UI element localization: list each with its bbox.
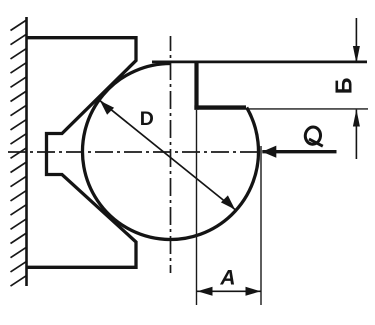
diameter D dimension line [100,101,235,210]
force Q arrow shaft [262,150,336,153]
vertical centerline [170,36,172,273]
dimension line A [197,290,261,292]
arrowhead B down [353,46,360,63]
arrowhead A right [246,287,261,296]
ball circle D (arc hidden behind step at upper right) [82,63,258,239]
extension line A left [196,110,198,305]
step vertical edge [194,61,198,110]
arrowhead D lower-right [221,195,235,209]
arrowhead B up [353,109,360,126]
svg-text:A: A [219,267,235,290]
horizontal centerline [8,151,262,153]
svg-text:Б: Б [331,78,357,95]
V-block body outline [26,38,136,268]
step face [194,105,246,109]
extension line A right [260,146,262,305]
svg-text:D: D [140,108,154,130]
top plate surface line [152,61,367,64]
arrowhead A left [197,287,212,296]
arrowhead D upper-left [100,101,114,115]
label Q [304,126,323,146]
dimension line B upper [355,18,357,63]
dimension line B lower [355,110,357,159]
wall hatching [11,20,27,286]
wall line [25,17,28,286]
force Q arrowhead [262,146,276,158]
step extension line (thin) [246,108,368,110]
